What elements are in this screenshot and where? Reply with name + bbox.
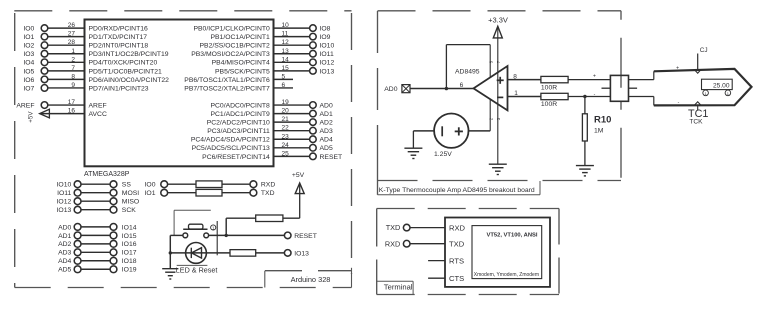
node IO10 circle [74, 181, 81, 188]
node IO14 circle [110, 224, 117, 231]
svg-text:AD1: AD1 [58, 233, 71, 240]
svg-text:19: 19 [282, 99, 290, 106]
LED D1 cathode bar [190, 248, 192, 258]
svg-text:PC6/RESET/PCINT14: PC6/RESET/PCINT14 [202, 154, 270, 161]
svg-text:13: 13 [282, 48, 290, 55]
pin PB4 wire (pin 14) [274, 61, 310, 63]
svg-text:22: 22 [282, 125, 290, 132]
pin AREF wire (pin 17) [48, 104, 85, 106]
pin PB2 wire (pin 12) [274, 44, 310, 46]
svg-text:AD4: AD4 [320, 137, 333, 144]
node IO13 circle [74, 206, 81, 213]
svg-text:5: 5 [282, 73, 286, 80]
node AD0 input pad [402, 85, 410, 93]
node AD3 circle [74, 249, 81, 256]
svg-text:PB7/TOSC2/XTAL2/PCINT7: PB7/TOSC2/XTAL2/PCINT7 [184, 85, 270, 92]
svg-text:SCK: SCK [122, 207, 136, 214]
svg-text:RTS: RTS [449, 256, 464, 265]
feedback wire horizontal [446, 44, 490, 46]
resistor R-led [230, 250, 256, 257]
terminal emulator box [445, 218, 550, 287]
serial link IO1 wire right [222, 192, 250, 194]
node IO12 terminal circle [310, 59, 317, 66]
node AD1 terminal circle [310, 110, 317, 117]
svg-text:AD0: AD0 [58, 224, 71, 231]
svg-text:IO1: IO1 [145, 190, 156, 197]
pin PB3 wire (pin 13) [274, 53, 310, 55]
node IO4 terminal circle [41, 59, 48, 66]
svg-text:IO2: IO2 [23, 43, 34, 50]
svg-text:AREF: AREF [16, 102, 34, 109]
node RXD circle [403, 240, 410, 247]
pin PB0 wire (pin 10) [274, 27, 310, 29]
node IO15 circle [110, 232, 117, 239]
header link AD0 to IO14 wire [81, 226, 110, 228]
serial link IO0 wire right [222, 183, 250, 185]
pin PC5 wire (pin 24) [274, 147, 310, 149]
Terminal dashed frame - bottom edge [377, 294, 559, 296]
pushbutton S1 cap [189, 224, 203, 229]
Arduino 328 module dashed frame - left edge [14, 13, 16, 288]
node MOSI circle [110, 189, 117, 196]
ground for LED and button [162, 268, 178, 270]
node AD1 circle [74, 232, 81, 239]
node IO5 terminal circle [41, 68, 48, 75]
pin PD0/RXD/PCINT16 wire (pin 26) [48, 27, 85, 29]
svg-text:IO13: IO13 [294, 250, 309, 257]
junction LED anode rail [169, 251, 172, 254]
node SS circle [110, 181, 117, 188]
header link AD4 to IO18 wire [81, 260, 110, 262]
node IO19 circle [110, 266, 117, 273]
svg-text:28: 28 [68, 39, 76, 46]
node SCK circle [110, 206, 117, 213]
svg-text:PC1/ADC1/PCINT9: PC1/ADC1/PCINT9 [210, 111, 270, 118]
resistor R10 body [582, 114, 587, 141]
LED D1 circle [186, 243, 207, 264]
svg-text:PD3/INT1/OC2B/PCINT19: PD3/INT1/OC2B/PCINT19 [89, 51, 169, 58]
svg-text:RXD: RXD [261, 182, 275, 189]
svg-text:IO9: IO9 [320, 34, 331, 41]
wire junction to R10 [584, 97, 586, 114]
ground for 1.25V source [404, 147, 422, 149]
Arduino 328 module dashed frame - right edge [351, 13, 353, 274]
wire resistor to terminal minus [568, 96, 610, 98]
svg-text:TXD: TXD [386, 223, 401, 232]
svg-text:Terminal: Terminal [384, 283, 413, 292]
node IO10 terminal circle [310, 42, 317, 49]
AD8495 board dashed frame - top edge [378, 10, 622, 12]
wire terminal to probe plus [629, 79, 654, 81]
Arduino 328 label tab [265, 270, 352, 272]
svg-text:VT52, VT100, ANSI: VT52, VT100, ANSI [486, 233, 537, 239]
power +3.3V arrow [493, 26, 502, 38]
node IO2 terminal circle [41, 42, 48, 49]
pin PD1/TXD/PCINT17 wire (pin 27) [48, 36, 85, 38]
svg-text:MISO: MISO [122, 199, 139, 206]
svg-text:PB2/SS/OC1B/PCINT2: PB2/SS/OC1B/PCINT2 [200, 43, 271, 50]
svg-text:IO14: IO14 [122, 224, 137, 231]
junction output node [445, 87, 448, 90]
svg-text:TXD: TXD [449, 240, 465, 249]
pin PB7 stub wire (pin 6) [274, 87, 294, 89]
wire button left to ground rail [170, 234, 183, 236]
node IO11 terminal circle [310, 50, 317, 57]
pin AVCC wire (pin 16) [40, 113, 84, 115]
screw terminal J1 body [610, 75, 628, 101]
wire +3.3V rail down through op-amp to ground [497, 27, 499, 164]
svg-text:26: 26 [68, 22, 76, 29]
svg-text:PB5/SCK/PCINT5: PB5/SCK/PCINT5 [215, 68, 270, 75]
Terminal label tab [377, 280, 413, 282]
header link AD2 to IO16 wire [81, 243, 110, 245]
pin PB1 wire (pin 11) [274, 36, 310, 38]
svg-text:AD3: AD3 [58, 250, 71, 257]
svg-text:AD5: AD5 [58, 267, 71, 274]
op-amp minus input glyph [497, 96, 503, 98]
pin PC1 wire (pin 20) [274, 113, 310, 115]
svg-text:IO10: IO10 [57, 182, 72, 189]
svg-text:CJ: CJ [700, 47, 708, 54]
svg-text:PB1/OC1A/PCINT1: PB1/OC1A/PCINT1 [210, 34, 270, 41]
svg-text:AD3: AD3 [320, 128, 333, 135]
svg-text:IO1: IO1 [23, 34, 34, 41]
pin PC0 wire (pin 19) [274, 104, 310, 106]
Arduino 328 module dashed frame - top edge [14, 10, 351, 12]
svg-text:IO18: IO18 [122, 258, 137, 265]
screw terminal right stub [629, 87, 638, 89]
svg-text:16: 16 [68, 108, 76, 115]
header link AD5 to IO19 wire [81, 268, 110, 270]
node AD4 terminal circle [310, 136, 317, 143]
header link IO10 to SS wire [81, 183, 110, 185]
svg-text:AD5: AD5 [320, 145, 333, 152]
svg-text:PC3/ADC3/PCINT11: PC3/ADC3/PCINT11 [207, 128, 270, 135]
svg-text:RXD: RXD [385, 239, 400, 248]
svg-text:AD1: AD1 [320, 111, 333, 118]
pin RTS stub [428, 260, 445, 262]
node AD2 circle [74, 240, 81, 247]
svg-text:CTS: CTS [449, 274, 464, 283]
svg-text:17: 17 [68, 99, 76, 106]
node TXD circle [250, 189, 257, 196]
node IO12 circle [74, 198, 81, 205]
wire +5V down [299, 184, 301, 219]
svg-text:IO8: IO8 [320, 26, 331, 33]
node IO13 circle [284, 250, 291, 257]
node IO0 terminal circle [41, 25, 48, 32]
pin CTS stub [428, 277, 445, 279]
svg-text:23: 23 [282, 133, 290, 140]
Terminal dashed frame - left edge [376, 209, 378, 295]
svg-text:PC0/ADC0/PCINT8: PC0/ADC0/PCINT8 [210, 102, 270, 109]
svg-text:AREF: AREF [89, 102, 107, 109]
svg-text:10: 10 [282, 22, 290, 29]
svg-text:IO13: IO13 [320, 68, 335, 75]
node IO7 terminal circle [41, 85, 48, 92]
svg-text:IO11: IO11 [57, 190, 71, 197]
node IO3 terminal circle [41, 50, 48, 57]
svg-text:PC5/ADC5/SCL/PCINT13: PC5/ADC5/SCL/PCINT13 [192, 145, 270, 152]
svg-text:LED & Reset: LED & Reset [176, 266, 218, 275]
svg-text:IO0: IO0 [145, 182, 156, 189]
node IO11 circle [74, 189, 81, 196]
pin PC3 wire (pin 22) [274, 130, 310, 132]
svg-text:IO16: IO16 [122, 241, 137, 248]
pin PB6 stub wire (pin 5) [274, 78, 294, 80]
ground for R10 [576, 165, 594, 167]
wire RXD to terminal TXD [410, 243, 445, 245]
junction R10 tap [583, 95, 586, 98]
wire R10 to ground [584, 141, 586, 165]
svg-text:AD0: AD0 [384, 86, 397, 93]
svg-text:6: 6 [460, 82, 464, 89]
wire terminal to probe minus [629, 96, 654, 98]
svg-text:IO3: IO3 [23, 51, 34, 58]
node MISO circle [110, 198, 117, 205]
serial link ferrite bead F1 [196, 181, 222, 188]
thermocouple TC1 probe outline [654, 69, 752, 106]
resistor R-pullup 10k [256, 215, 283, 222]
node AD0 terminal circle [310, 102, 317, 109]
pushbutton S1 circled-1 marker [211, 225, 216, 230]
svg-text:IO0: IO0 [23, 26, 34, 33]
svg-text:25: 25 [282, 150, 290, 157]
serial link IO1 wire left [168, 192, 197, 194]
node IO9 terminal circle [310, 33, 317, 40]
feedback wire vertical [445, 45, 447, 89]
svg-text:24: 24 [282, 142, 290, 149]
node IO8 terminal circle [310, 25, 317, 32]
pin PB5 wire (pin 15) [274, 70, 310, 72]
node RXD circle [250, 181, 257, 188]
svg-text:12: 12 [282, 39, 290, 46]
header link AD3 to IO17 wire [81, 251, 110, 253]
resistor R-in+ 100R [541, 76, 568, 82]
svg-text:IO5: IO5 [23, 68, 34, 75]
node IO6 terminal circle [41, 76, 48, 83]
node AD2 terminal circle [310, 119, 317, 126]
svg-text:9: 9 [71, 82, 75, 89]
svg-text:8: 8 [71, 73, 75, 80]
node AD5 circle [74, 266, 81, 273]
pin PC2 wire (pin 21) [274, 121, 310, 123]
svg-text:Arduino 328: Arduino 328 [291, 275, 331, 284]
wire button right to reset junction [209, 234, 285, 236]
svg-text:IO11: IO11 [320, 51, 334, 58]
svg-text:27: 27 [68, 31, 76, 38]
pin PC4 wire (pin 23) [274, 138, 310, 140]
svg-text:PD4/T0/XCK/PCINT20: PD4/T0/XCK/PCINT20 [89, 60, 158, 67]
node IO17 circle [110, 249, 117, 256]
svg-text:PC2/ADC2/PCINT10: PC2/ADC2/PCINT10 [207, 120, 270, 127]
pin PD4/T0/XCK/PCINT20 wire (pin 2) [48, 61, 85, 63]
wire 1.25V plus to sense line [468, 130, 490, 132]
pin PD7/AIN1/PCINT23 wire (pin 9) [48, 87, 85, 89]
svg-text:PB0/ICP1/CLKO/PCINT0: PB0/ICP1/CLKO/PCINT0 [193, 26, 270, 33]
svg-text:AVCC: AVCC [89, 111, 107, 118]
terminal inner screen box [472, 226, 542, 279]
temperature display box [702, 79, 733, 89]
voltage source plus glyph [455, 130, 463, 132]
svg-text:AD2: AD2 [320, 120, 333, 127]
svg-text:K-Type Thermocouple Amp AD8495: K-Type Thermocouple Amp AD8495 breakout … [379, 187, 535, 194]
cold junction CJ pin [697, 54, 699, 71]
AD8495 board dashed frame - right edge [620, 11, 622, 181]
pin PD6/AIN0/OC0A/PCINT22 wire (pin 8) [48, 78, 85, 80]
svg-text:IO15: IO15 [122, 233, 137, 240]
svg-text:PD5/T1/OC0B/PCINT21: PD5/T1/OC0B/PCINT21 [89, 68, 162, 75]
node AD5 terminal circle [310, 145, 317, 152]
junction reset node [225, 234, 228, 237]
annotation box LED & Reset - bottom line [177, 264, 208, 266]
wire AD0 to output junction [410, 88, 474, 90]
svg-text:ATMEGA328P: ATMEGA328P [84, 171, 130, 178]
svg-text:14: 14 [282, 56, 290, 63]
voltage source V1 1.25V circle [434, 114, 468, 148]
node RESET circle [284, 232, 291, 239]
power +5V arrow at AVCC [40, 109, 50, 118]
svg-text:21: 21 [282, 116, 290, 123]
serial link IO0 wire left [168, 183, 197, 185]
svg-text:PD1/TXD/PCINT17: PD1/TXD/PCINT17 [89, 34, 148, 41]
node AD3 terminal circle [310, 127, 317, 134]
pin PC6 wire (pin 25) [274, 155, 310, 157]
svg-text:1M: 1M [594, 128, 604, 135]
wire rail through LED to resistor [170, 252, 230, 254]
svg-text:PD0/RXD/PCINT16: PD0/RXD/PCINT16 [89, 26, 149, 33]
svg-text:+: + [593, 73, 596, 79]
annotation box LED & Reset - top line [174, 209, 211, 211]
svg-text:1: 1 [71, 48, 75, 55]
wire sense line from feedback to 1.25V reference [489, 45, 491, 131]
svg-text:7: 7 [71, 65, 75, 72]
wire down to reset node [225, 218, 227, 235]
svg-text:AD8495: AD8495 [455, 68, 480, 75]
svg-text:15: 15 [282, 65, 290, 72]
svg-text:+3.3V: +3.3V [488, 15, 508, 24]
wire ground rail vertical [169, 235, 171, 268]
svg-text:IO12: IO12 [57, 199, 72, 206]
Terminal dashed frame - top edge [377, 208, 559, 210]
serial link ferrite bead F2 [196, 189, 222, 196]
AD8495 board dashed frame - left edge [377, 11, 379, 160]
node AD0 circle [74, 224, 81, 231]
svg-text:PD6/AIN0/OC0A/PCINT22: PD6/AIN0/OC0A/PCINT22 [89, 77, 170, 84]
wire +5V to pullup resistor [283, 217, 300, 219]
op-amp plus input glyph [497, 79, 504, 81]
AD8495 board dashed frame - bottom edge [378, 180, 622, 182]
node IO16 circle [110, 240, 117, 247]
svg-text:+5V: +5V [28, 111, 35, 123]
header link IO13 to SCK wire [81, 209, 110, 211]
Terminal dashed frame - right edge [558, 209, 560, 295]
svg-text:R10: R10 [594, 115, 611, 126]
svg-text:IO6: IO6 [23, 77, 34, 84]
voltage source bar glyph [441, 126, 443, 136]
svg-text:2: 2 [71, 56, 75, 63]
node IO1 terminal circle [41, 33, 48, 40]
wire minus input to resistor [508, 96, 541, 98]
wire TXD to terminal RXD [410, 227, 445, 229]
pin PD2/INT0/PCINT18 wire (pin 28) [48, 44, 85, 46]
header link IO12 to MISO wire [81, 200, 110, 202]
svg-text:AD4: AD4 [58, 258, 71, 265]
svg-text:6: 6 [282, 82, 286, 89]
svg-text:IO19: IO19 [122, 267, 137, 274]
svg-text:25.00: 25.00 [713, 82, 730, 89]
svg-text:PB3/MOSI/OC2A/PCINT3: PB3/MOSI/OC2A/PCINT3 [191, 51, 270, 58]
Arduino 328 module dashed frame - bottom edge [15, 287, 352, 289]
node AREF terminal circle [41, 102, 48, 109]
svg-text:20: 20 [282, 108, 290, 115]
svg-text:PC4/ADC4/SDA/PCINT12: PC4/ADC4/SDA/PCINT12 [191, 137, 270, 144]
node RESET terminal circle [310, 153, 317, 160]
svg-text:TXD: TXD [261, 190, 275, 197]
node IO1 circle [161, 189, 168, 196]
node IO0 circle [161, 181, 168, 188]
wire pullup resistor to reset node [226, 217, 256, 219]
svg-text:IO10: IO10 [320, 43, 335, 50]
svg-text:RESET: RESET [294, 233, 317, 240]
svg-text:100R: 100R [541, 84, 557, 91]
svg-text:IO13: IO13 [57, 207, 72, 214]
pushbutton S1 left contact [183, 233, 188, 238]
svg-text:PB4/MISO/PCINT4: PB4/MISO/PCINT4 [212, 60, 270, 67]
wire plus input to resistor [508, 79, 541, 81]
pushbutton S1 base plate [183, 228, 207, 230]
wire resistor to terminal plus [568, 79, 610, 81]
svg-text:PD7/AIN1/PCINT23: PD7/AIN1/PCINT23 [89, 85, 149, 92]
svg-text:PB6/TOSC1/XTAL1/PCINT6: PB6/TOSC1/XTAL1/PCINT6 [184, 77, 270, 84]
IC U1 ATMEGA328P body [85, 20, 274, 167]
svg-text:AD0: AD0 [320, 102, 333, 109]
annotation box LED & Reset - left line [173, 210, 175, 235]
LED D1 triangle [192, 248, 202, 258]
pushbutton S1 right contact [204, 233, 209, 238]
svg-text:11: 11 [282, 31, 289, 38]
op-amp U2 AD8495 triangle [474, 66, 508, 110]
svg-text:Xmodem, Ymodem, Zmodem: Xmodem, Ymodem, Zmodem [474, 272, 539, 278]
svg-text:IO17: IO17 [122, 250, 137, 257]
svg-text:RESET: RESET [320, 154, 343, 161]
thermocouple junction pin bottom tick [697, 105, 699, 110]
node IO18 circle [110, 257, 117, 264]
label underline [378, 194, 541, 196]
svg-text:TCK: TCK [689, 119, 703, 126]
ground for +3.3V rail [489, 163, 507, 165]
svg-text:IO7: IO7 [23, 85, 34, 92]
svg-text:AD2: AD2 [58, 241, 71, 248]
circled marker 1 [703, 90, 709, 96]
svg-text:MOSI: MOSI [122, 190, 139, 197]
resistor R-in- 100R [541, 93, 568, 99]
node IO13 terminal circle [310, 68, 317, 75]
pin PD3/INT1/OC2B/PCINT19 wire (pin 1) [48, 53, 85, 55]
power +5V arrow [295, 183, 304, 194]
svg-text:PD2/INT0/PCINT18: PD2/INT0/PCINT18 [89, 43, 149, 50]
pushbutton actuator line [216, 221, 218, 255]
circled marker 2 [725, 90, 731, 96]
svg-text:SS: SS [122, 182, 132, 189]
svg-text:100R: 100R [541, 101, 557, 108]
header link AD1 to IO15 wire [81, 234, 110, 236]
svg-text:IO12: IO12 [320, 60, 335, 67]
pin PD5/T1/OC0B/PCINT21 wire (pin 7) [48, 70, 85, 72]
node AD4 circle [74, 257, 81, 264]
wire 1.25V minus to ground [413, 130, 434, 132]
screw terminal left stub [602, 87, 611, 89]
